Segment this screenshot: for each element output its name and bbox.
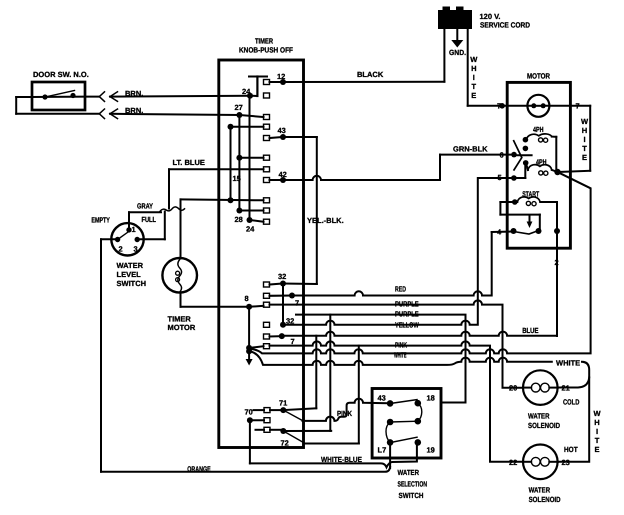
svg-text:24: 24 <box>246 225 255 234</box>
svg-text:W: W <box>581 117 589 126</box>
svg-text:T: T <box>595 436 600 445</box>
svg-text:72: 72 <box>281 439 289 448</box>
svg-text:WHITE: WHITE <box>556 359 580 368</box>
svg-text:27: 27 <box>235 103 243 112</box>
svg-text:28: 28 <box>235 215 243 224</box>
svg-text:LEVEL: LEVEL <box>117 270 142 279</box>
svg-text:H: H <box>582 126 587 135</box>
svg-text:SOLENOID: SOLENOID <box>529 495 561 504</box>
svg-text:WATER: WATER <box>528 412 550 421</box>
svg-text:SELECTION: SELECTION <box>398 480 428 489</box>
svg-text:W: W <box>593 409 601 418</box>
svg-text:E: E <box>582 153 587 162</box>
svg-text:WATER: WATER <box>529 486 551 495</box>
svg-text:4PH: 4PH <box>536 158 547 167</box>
svg-text:PINK: PINK <box>337 409 352 418</box>
svg-text:7: 7 <box>497 102 501 111</box>
svg-text:MOTOR: MOTOR <box>527 72 550 81</box>
svg-text:H: H <box>471 64 476 73</box>
svg-text:15: 15 <box>233 174 241 183</box>
svg-text:22: 22 <box>509 458 517 467</box>
svg-text:5: 5 <box>498 173 502 182</box>
svg-text:COLD: COLD <box>563 398 580 407</box>
svg-text:32: 32 <box>278 272 286 281</box>
svg-text:H: H <box>594 418 599 427</box>
svg-text:7: 7 <box>576 102 580 111</box>
svg-text:SWITCH: SWITCH <box>117 279 147 288</box>
svg-text:BLACK: BLACK <box>357 70 384 79</box>
svg-text:24: 24 <box>242 87 251 96</box>
svg-text:18: 18 <box>427 394 435 403</box>
svg-text:YEL.-BLK.: YEL.-BLK. <box>307 216 344 225</box>
svg-text:KNOB-PUSH OFF: KNOB-PUSH OFF <box>239 46 293 55</box>
svg-text:20: 20 <box>509 384 517 393</box>
svg-text:PURPLE: PURPLE <box>395 310 419 319</box>
svg-text:BRN.: BRN. <box>125 89 143 98</box>
svg-text:YELLOW: YELLOW <box>395 320 419 329</box>
svg-text:21: 21 <box>562 384 570 393</box>
svg-text:DOOR SW. N.O.: DOOR SW. N.O. <box>33 70 89 79</box>
svg-text:ORANGE: ORANGE <box>187 465 211 474</box>
svg-text:7: 7 <box>295 299 299 308</box>
svg-text:FULL: FULL <box>142 215 157 224</box>
svg-text:PINK: PINK <box>395 341 407 350</box>
svg-text:HOT: HOT <box>564 445 578 454</box>
svg-text:4PH: 4PH <box>533 125 544 134</box>
svg-text:SERVICE CORD: SERVICE CORD <box>480 21 531 30</box>
svg-text:MOTOR: MOTOR <box>168 323 196 332</box>
svg-text:1: 1 <box>132 225 136 234</box>
svg-text:WATER: WATER <box>398 468 420 477</box>
svg-text:T: T <box>582 144 587 153</box>
svg-text:8: 8 <box>245 294 249 303</box>
svg-text:BRN.: BRN. <box>125 106 143 115</box>
svg-text:I: I <box>583 135 585 144</box>
svg-text:WHITE-BLUE: WHITE-BLUE <box>321 455 362 464</box>
svg-text:GND.: GND. <box>449 48 466 57</box>
svg-text:E: E <box>594 445 599 454</box>
svg-text:3: 3 <box>134 245 138 254</box>
svg-text:E: E <box>471 91 476 100</box>
svg-text:43: 43 <box>278 126 286 135</box>
svg-text:GRN-BLK: GRN-BLK <box>453 145 488 154</box>
svg-text:T: T <box>472 82 477 91</box>
svg-text:2: 2 <box>119 245 123 254</box>
svg-text:BLUE: BLUE <box>522 326 538 335</box>
svg-text:GRAY: GRAY <box>137 202 153 211</box>
svg-text:EMPTY: EMPTY <box>91 216 110 225</box>
svg-text:L7: L7 <box>378 446 387 455</box>
svg-text:START: START <box>522 190 539 199</box>
svg-text:LT. BLUE: LT. BLUE <box>173 158 205 167</box>
svg-text:PURPLE: PURPLE <box>395 300 419 309</box>
svg-text:SWITCH: SWITCH <box>399 491 424 500</box>
svg-text:WATER: WATER <box>117 261 144 270</box>
svg-text:70: 70 <box>245 408 253 417</box>
svg-text:W: W <box>470 55 478 64</box>
svg-text:I: I <box>473 73 475 82</box>
svg-text:19: 19 <box>427 446 435 455</box>
svg-text:6: 6 <box>500 151 504 160</box>
svg-text:TIMER: TIMER <box>255 37 273 46</box>
svg-text:71: 71 <box>279 399 287 408</box>
svg-text:32: 32 <box>286 317 294 326</box>
svg-text:23: 23 <box>562 458 570 467</box>
svg-text:WHITE: WHITE <box>394 350 407 359</box>
svg-text:RED: RED <box>395 285 406 294</box>
svg-text:12: 12 <box>277 72 285 81</box>
svg-text:42: 42 <box>279 170 287 179</box>
svg-text:7: 7 <box>291 337 295 346</box>
svg-text:2: 2 <box>555 258 559 267</box>
svg-text:SOLENOID: SOLENOID <box>528 421 560 430</box>
svg-text:43: 43 <box>378 394 386 403</box>
svg-text:I: I <box>596 427 598 436</box>
